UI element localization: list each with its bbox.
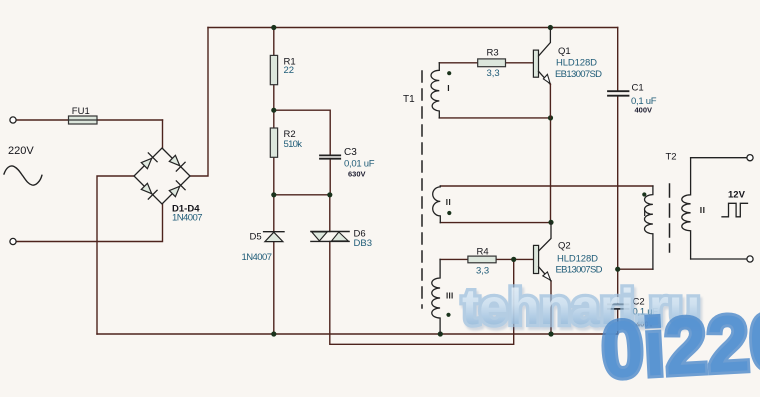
wire output top [691,157,747,159]
capacitor C1 [608,83,657,115]
wire winding III to R4 [440,258,468,260]
terminal output bottom [747,256,753,262]
svg-text:T1: T1 [403,94,415,105]
capacitor C3 [320,147,375,179]
wire C1 to C2 [617,96,619,304]
svg-text:FU1: FU1 [72,106,90,117]
wire T2 primary return [618,268,653,270]
transistor Q1 [533,28,602,118]
svg-text:400V: 400V [635,106,653,115]
svg-text:R4: R4 [477,247,489,258]
terminal input top [10,117,16,123]
svg-text:0,01 uF: 0,01 uF [344,159,375,170]
svg-text:II: II [446,198,451,207]
T2 primary [642,186,653,269]
watermark tehnari.ru [462,278,700,336]
node C3 D6 [327,192,332,197]
wire C3 bottom lead [329,159,331,195]
wire D6 top lead [329,195,331,232]
svg-text:1N4007: 1N4007 [242,252,273,263]
node half bridge mid [548,115,553,120]
svg-text:Q2: Q2 [558,241,571,252]
T1 winding II [433,186,452,223]
svg-text:12V: 12V [728,190,746,201]
fuse FU1 [69,106,98,124]
node R1 R2 C3 [271,108,276,113]
diode D2 top-right [169,155,179,165]
svg-text:EB13007SD: EB13007SD [556,265,603,276]
diode D4 bottom-right [169,186,179,196]
node Q1 collector bus [548,25,553,30]
svg-text:II: II [700,205,706,215]
node Q2 emitter bus [548,331,553,336]
diac D6 [311,229,372,250]
svg-text:I: I [644,208,646,218]
node Q2 base [511,257,516,262]
node Q2 collector [548,220,553,225]
node D5 bus [271,331,276,336]
wire R1 to R2 [273,85,275,128]
svg-text:D5: D5 [250,232,262,243]
terminal input bottom [10,238,16,244]
wire output bottom [691,258,747,260]
svg-text:HLD128D: HLD128D [557,254,598,265]
svg-text:III: III [446,291,454,300]
wire winding I top to R3 [439,62,477,64]
T1 winding III [432,259,454,334]
node T2 return [615,267,620,272]
svg-text:C1: C1 [632,83,644,94]
wire C2 bottom lead [617,309,619,334]
node winding III bus [438,331,443,336]
wire R4 to Q2 base [496,258,533,260]
node R1 top [271,25,276,30]
resistor R4 [468,247,496,277]
svg-text:3,3: 3,3 [476,266,489,277]
node R2 D5 [271,192,276,197]
diode D5 [242,232,285,264]
wire input bottom [16,204,162,242]
wire Q2 emitter bottom [550,281,552,334]
wire top bus [208,27,618,29]
T1 winding I [431,63,451,118]
wire feedback winding to T2 primary [440,185,653,187]
bridge rectifier D1-D4 [134,148,190,204]
wire bridge plus riser [190,28,208,177]
diode D3 bottom-left [141,183,151,193]
svg-text:I: I [447,83,449,93]
diode D1 top-left [141,158,151,168]
svg-text:T2: T2 [666,152,677,163]
wire D5 bottom lead [273,242,275,334]
AC source sine symbol [4,166,42,185]
wire R3 to Q1 base [506,62,534,64]
wire winding II bottom [440,222,551,224]
svg-text:R3: R3 [487,48,499,59]
terminal output top [747,155,753,161]
wire R1 top lead [273,28,275,56]
wire to C3 top [274,110,330,155]
resistor R2 [270,128,302,157]
svg-text:C3: C3 [344,147,357,158]
svg-text:22: 22 [284,65,295,76]
wire bottom bus [97,333,618,335]
watermark 0i220 [599,295,760,397]
svg-text:3,3: 3,3 [487,68,500,79]
svg-text:1N4007: 1N4007 [172,213,203,224]
wire winding I bottom [439,117,550,119]
transformer T2 core [666,152,677,253]
transformer T1 core [403,71,422,308]
wire bridge minus to bottom bus [97,176,134,334]
capacitor C2 [608,297,658,329]
transistor Q2 [534,222,603,281]
svg-text:510k: 510k [284,139,303,150]
wire half bridge midpoint [550,118,552,222]
square wave symbol [722,203,748,217]
resistor R1 [270,55,295,84]
wire D6 to Q2 base [330,241,514,344]
wire node R2 to node C3 [274,194,330,196]
resistor R3 [478,48,506,80]
wire R2 to D5 [273,157,275,231]
svg-text:Q1: Q1 [558,46,571,57]
svg-text:220V: 220V [8,145,34,157]
wire input top [16,119,162,121]
wire bridge top lead [162,120,164,148]
T2 secondary [682,158,706,259]
svg-text:EB13007SD: EB13007SD [555,69,602,80]
svg-text:630V: 630V [348,170,366,179]
wire C1 top lead [617,28,619,92]
svg-text:HLD128D: HLD128D [556,58,597,69]
svg-text:DB3: DB3 [354,238,372,249]
